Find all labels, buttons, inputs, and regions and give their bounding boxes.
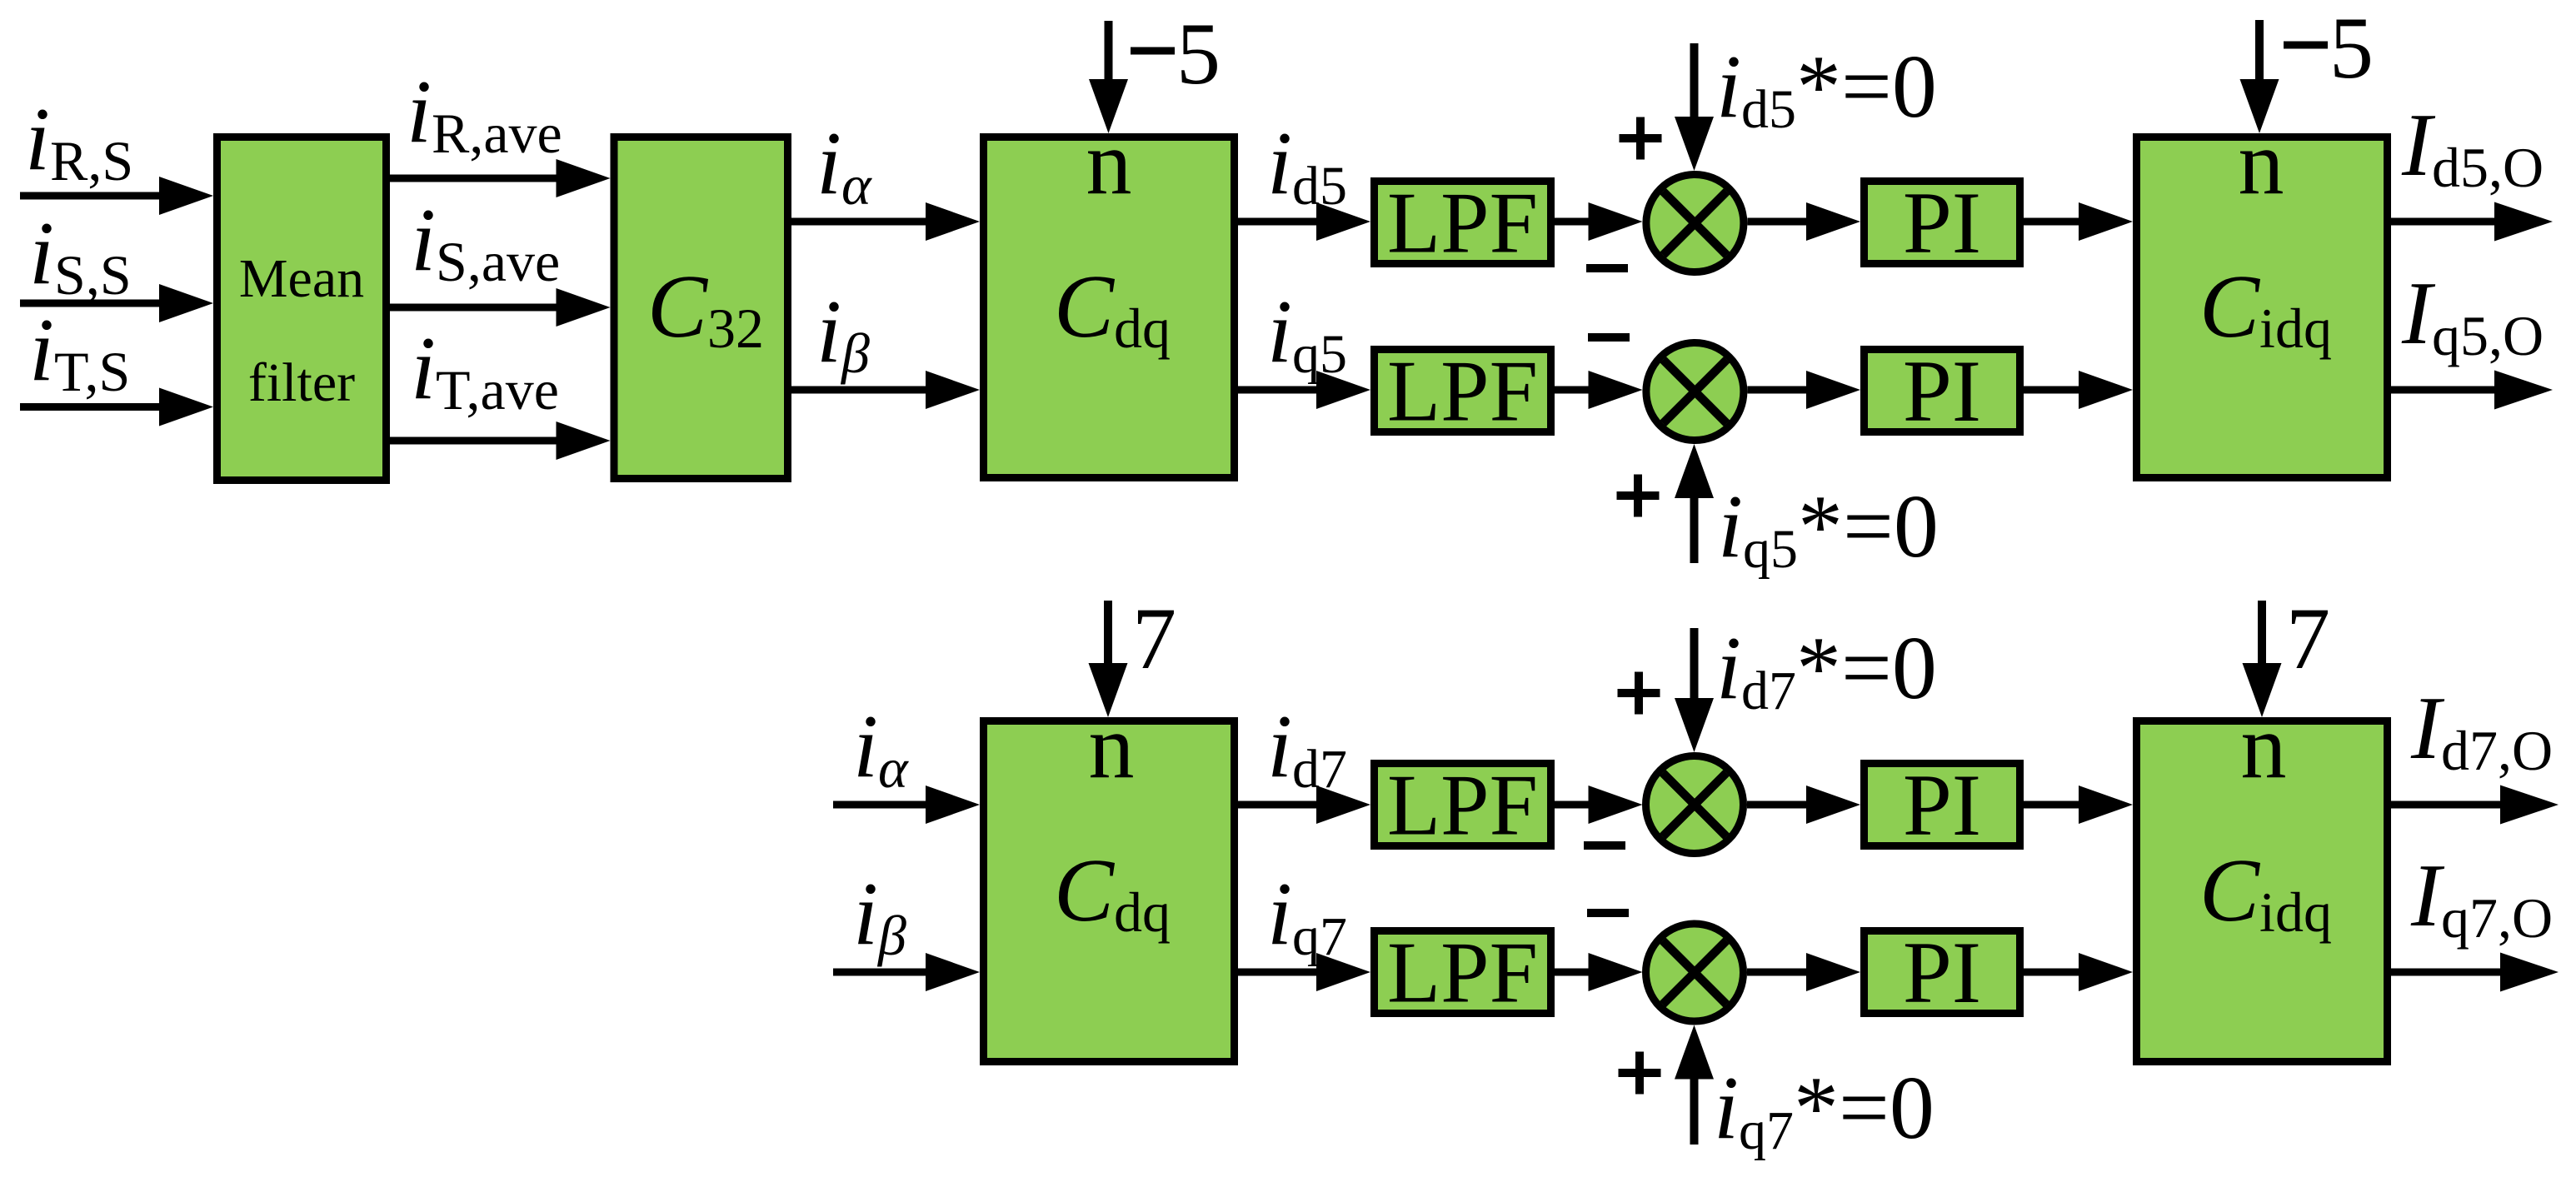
sign minus d7 xyxy=(1584,841,1625,850)
wire i_R,ave arrow xyxy=(390,159,611,197)
svg-text:7: 7 xyxy=(2286,590,2330,687)
wire input i_R,S arrow xyxy=(20,177,213,215)
svg-text:PI: PI xyxy=(1903,756,1981,854)
arrow ref i_d7 into sum xyxy=(1675,628,1714,752)
svg-text:iq7*=0: iq7*=0 xyxy=(1714,1059,1934,1161)
svg-text:Iq7,O: Iq7,O xyxy=(2410,846,2553,950)
label -5 top C_idq xyxy=(2284,0,2374,97)
wire i_S,ave arrow xyxy=(390,288,611,327)
svg-text:Mean: Mean xyxy=(239,248,364,309)
svg-text:PI: PI xyxy=(1903,924,1981,1021)
svg-text:iS,S: iS,S xyxy=(29,204,132,307)
svg-text:iS,ave: iS,ave xyxy=(411,191,560,293)
svg-text:iβ: iβ xyxy=(853,865,906,967)
block PI q5 xyxy=(1865,350,2020,432)
wire sum to PI q5 xyxy=(1747,371,1860,409)
wire i_beta arrow xyxy=(791,371,980,409)
wire PI to C_idq d7 xyxy=(2024,785,2133,824)
svg-text:PI: PI xyxy=(1903,342,1981,440)
block C_32 xyxy=(614,137,788,479)
block PI d7 xyxy=(1865,764,2020,846)
summing junction d5 xyxy=(1646,175,1744,272)
sign plus d5 xyxy=(1620,117,1662,160)
svg-text:iq5*=0: iq5*=0 xyxy=(1718,477,1939,580)
arrow 7 into C_dq bottom xyxy=(1089,601,1128,717)
sign minus q7 xyxy=(1587,909,1629,917)
wire input i_T,S arrow xyxy=(20,388,213,426)
wire output I_q7,O arrow xyxy=(2391,953,2559,992)
sign plus d7 xyxy=(1618,672,1660,715)
wire PI to C_idq q5 xyxy=(2024,371,2133,409)
wire sum to PI d7 xyxy=(1747,785,1860,824)
wire LPF to sum d7 xyxy=(1555,785,1643,824)
sign minus q5 xyxy=(1588,333,1630,342)
svg-text:iR,ave: iR,ave xyxy=(407,62,562,165)
wire i_d5 arrow xyxy=(1238,202,1370,241)
svg-text:PI: PI xyxy=(1903,174,1981,272)
wire output I_d7,O arrow xyxy=(2391,785,2559,825)
arrow ref i_q7 into sum xyxy=(1675,1025,1714,1145)
svg-text:iq7: iq7 xyxy=(1267,865,1347,967)
arrow -5 into C_idq xyxy=(2240,20,2279,133)
block LPF q5 xyxy=(1375,350,1551,432)
block C_idq bottom xyxy=(2137,721,2388,1062)
svg-text:id5*=0: id5*=0 xyxy=(1716,37,1937,140)
block C_idq top xyxy=(2137,137,2388,478)
block Mean filter xyxy=(217,137,387,481)
svg-text:id7: id7 xyxy=(1267,697,1347,800)
block PI q7 xyxy=(1865,931,2020,1014)
block LPF q7 xyxy=(1375,931,1551,1014)
svg-text:LPF: LPF xyxy=(1387,174,1538,272)
wire PI to C_idq q7 xyxy=(2024,953,2133,991)
svg-text:n: n xyxy=(1089,696,1135,797)
summing junction d7 xyxy=(1646,756,1744,854)
label -5 top C_dq xyxy=(1131,5,1221,102)
svg-text:iT,ave: iT,ave xyxy=(411,319,559,421)
svg-text:5: 5 xyxy=(2329,0,2374,97)
svg-text:Id7,O: Id7,O xyxy=(2410,679,2553,782)
wire PI to C_idq d5 xyxy=(2024,202,2133,241)
svg-text:Id5,O: Id5,O xyxy=(2401,96,2544,199)
svg-text:iα: iα xyxy=(853,697,909,800)
svg-text:iR,S: iR,S xyxy=(25,90,133,192)
svg-text:5: 5 xyxy=(1176,5,1221,102)
sign plus q7 xyxy=(1619,1052,1661,1095)
wire LPF to sum q5 xyxy=(1555,371,1643,409)
svg-text:7: 7 xyxy=(1132,590,1176,687)
svg-text:iq5: iq5 xyxy=(1267,282,1347,385)
wire output I_d5,O arrow xyxy=(2391,202,2553,242)
wire input i_alpha bottom arrow xyxy=(833,785,980,824)
wire input i_beta bottom arrow xyxy=(833,953,980,991)
arrow 7 into C_idq bottom xyxy=(2243,601,2282,717)
wire i_q5 arrow xyxy=(1238,371,1370,409)
arrow ref i_d5 into sum xyxy=(1675,43,1714,171)
block LPF d5 xyxy=(1375,182,1551,264)
block C_dq top xyxy=(984,137,1235,478)
svg-text:iβ: iβ xyxy=(816,282,870,385)
wire output I_q5,O arrow xyxy=(2391,371,2553,410)
svg-text:iT,S: iT,S xyxy=(29,301,130,403)
wire LPF to sum d5 xyxy=(1555,202,1643,241)
svg-text:filter: filter xyxy=(248,352,355,413)
svg-text:id7*=0: id7*=0 xyxy=(1716,619,1937,721)
wire i_alpha arrow xyxy=(791,202,980,241)
wire i_q7 arrow xyxy=(1238,953,1370,991)
summing junction q5 xyxy=(1646,343,1744,441)
svg-text:LPF: LPF xyxy=(1387,924,1538,1021)
block C_dq bottom xyxy=(984,721,1235,1062)
svg-text:id5: id5 xyxy=(1267,114,1347,217)
svg-text:Iq5,O: Iq5,O xyxy=(2401,264,2544,367)
wire sum to PI d5 xyxy=(1747,202,1860,241)
sign plus q5 xyxy=(1617,475,1660,517)
wire input i_S,S arrow xyxy=(20,284,213,322)
summing junction q7 xyxy=(1646,924,1744,1021)
arrow -5 into C_dq xyxy=(1089,21,1128,133)
wire i_T,ave arrow xyxy=(390,421,611,460)
wire i_d7 arrow xyxy=(1238,785,1370,824)
block PI d5 xyxy=(1865,182,2020,264)
svg-text:iα: iα xyxy=(816,114,872,217)
sign minus d5 xyxy=(1586,264,1628,272)
wire LPF to sum q7 xyxy=(1555,953,1643,991)
block LPF d7 xyxy=(1375,764,1551,846)
arrow ref i_q5 into sum xyxy=(1675,444,1714,563)
svg-text:LPF: LPF xyxy=(1387,342,1538,440)
wire sum to PI q7 xyxy=(1747,953,1860,991)
svg-text:LPF: LPF xyxy=(1387,756,1538,854)
